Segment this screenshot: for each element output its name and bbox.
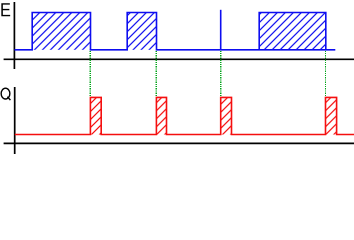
falling-edge marker 3 (green dotted) bbox=[220, 51, 222, 97]
Q pulse 3 hatch fill bbox=[221, 97, 232, 134]
falling-edge marker 4 (green dotted) bbox=[325, 51, 327, 97]
signal label Q bbox=[1, 88, 10, 99]
Q vertical axis bbox=[14, 87, 16, 154]
E pulse 3 hatch fill bbox=[259, 13, 326, 50]
Q pulse 1 hatch fill bbox=[90, 97, 101, 134]
Q pulse 2 hatch fill bbox=[156, 97, 166, 134]
Q pulse 4 hatch fill bbox=[326, 97, 337, 134]
Q horizontal axis bbox=[4, 142, 354, 144]
E pulse 1 hatch fill bbox=[32, 13, 90, 50]
signal label E bbox=[1, 3, 10, 16]
E horizontal axis bbox=[4, 58, 354, 60]
falling-edge marker 1 (green dotted) bbox=[89, 51, 91, 97]
waveform Q trace (red) bbox=[15, 97, 354, 134]
waveform E trace (blue) bbox=[15, 13, 336, 50]
E vertical axis bbox=[13, 2, 15, 69]
E pulse 2 hatch fill bbox=[127, 13, 156, 50]
E spike glitch bbox=[220, 10, 222, 50]
falling-edge marker 2 (green dotted) bbox=[155, 51, 157, 97]
